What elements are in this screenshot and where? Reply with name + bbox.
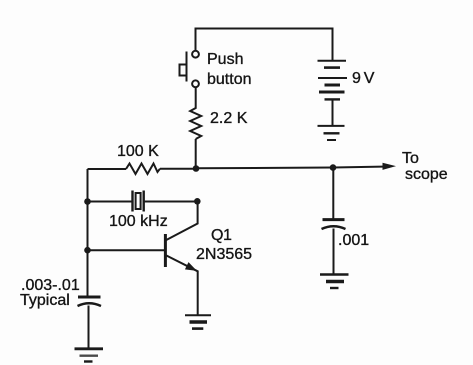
- wire top rail from push button to battery: [196, 29, 333, 61]
- label .001: [338, 232, 369, 250]
- capacitor C2 .001: [322, 220, 346, 229]
- battery B1 9V: [318, 61, 348, 100]
- node A junction dot: [193, 165, 200, 172]
- wire battery to ground: [332, 99, 334, 125]
- wire node A to scope arrow: [196, 167, 384, 169]
- ground battery: [318, 126, 345, 140]
- label Push button: [207, 51, 243, 69]
- push button S1: [180, 51, 199, 87]
- label 9 V: [352, 70, 374, 88]
- capacitor C1 .003-.01: [78, 297, 102, 306]
- wire crystal Y1 to node D: [145, 201, 198, 203]
- wire output rail left with resistor R2 gap: [88, 168, 127, 170]
- resistor R1 2.2 K: [190, 105, 201, 139]
- node C junction dot crystal left: [84, 198, 91, 205]
- wire resistor R1 to node A: [195, 139, 197, 169]
- wire resistor R2 to node A: [160, 168, 196, 170]
- label Q1: [211, 227, 231, 245]
- resistor R2 100 K: [126, 164, 160, 175]
- wire node E to base of Q1: [88, 249, 166, 251]
- wire node C to crystal Y1: [88, 201, 132, 203]
- crystal Y1 100 kHz: [133, 191, 144, 212]
- node B junction dot on scope wire: [330, 164, 337, 171]
- node D junction dot collector branch: [194, 198, 201, 205]
- wire emitter to ground: [197, 271, 199, 316]
- wire capacitor C1 to ground: [88, 306, 90, 349]
- ground capacitor C1: [75, 349, 104, 362]
- wire collector of Q1: [166, 202, 198, 241]
- label 100 kHz: [109, 213, 168, 231]
- ground emitter: [185, 315, 211, 328]
- ground capacitor C2: [320, 275, 349, 289]
- wire capacitor C2 to ground: [333, 229, 335, 275]
- label Typical: [20, 292, 70, 310]
- wire node B to capacitor C2: [332, 168, 334, 220]
- label 100 K: [117, 143, 159, 161]
- arrowhead to scope: [383, 163, 397, 170]
- label 2.2 K: [210, 110, 247, 128]
- node E junction dot base wire: [84, 247, 91, 254]
- label To scope: [402, 150, 419, 168]
- label .003-.01: [21, 277, 80, 295]
- wire push button to resistor R1: [195, 87, 197, 105]
- wire left vertical bus: [87, 169, 89, 297]
- transistor Q1 2N3565: [165, 234, 197, 271]
- label 2N3565: [196, 246, 252, 264]
